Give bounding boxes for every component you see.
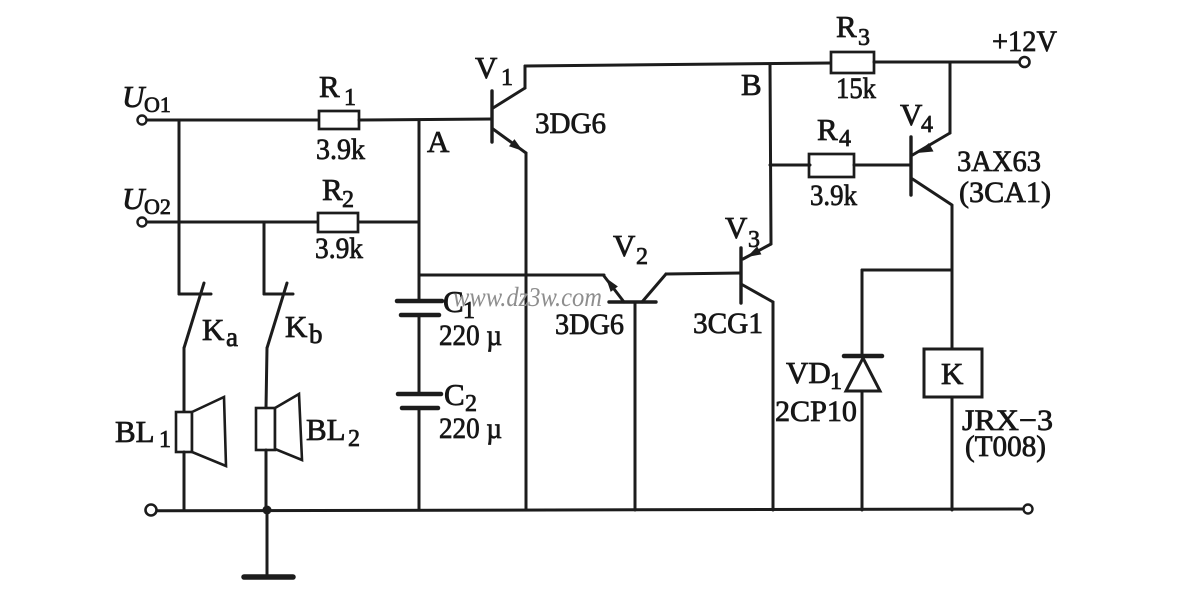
switch Ka	[179, 283, 211, 412]
svg-text:2: 2	[348, 426, 360, 452]
svg-text:VD: VD	[786, 355, 831, 390]
wire R4 to V4 base	[854, 164, 911, 167]
terminal +12V	[1020, 57, 1030, 67]
svg-text:O1: O1	[144, 92, 171, 117]
wire C1 to C2	[418, 315, 421, 394]
input terminal UO1	[138, 116, 147, 125]
speaker BL2	[256, 394, 302, 510]
terminal ground-right	[1024, 505, 1033, 514]
svg-text:R: R	[322, 172, 343, 207]
wire UO1 to R1	[147, 119, 320, 122]
svg-text:V: V	[613, 228, 636, 263]
svg-text:3.9k: 3.9k	[316, 133, 365, 166]
ground rail	[157, 509, 1023, 511]
svg-text:R: R	[836, 9, 857, 44]
svg-text:V: V	[900, 97, 923, 132]
node B vertical wire	[770, 64, 771, 244]
resistor R1	[319, 111, 359, 129]
svg-text:4: 4	[839, 126, 851, 152]
relay K	[924, 349, 982, 397]
resistor R3	[831, 52, 874, 73]
wire R3 to +12V terminal	[874, 61, 1020, 64]
svg-text:3CG1: 3CG1	[693, 307, 763, 340]
svg-text:2: 2	[636, 244, 648, 270]
capacitor C2	[398, 394, 441, 510]
svg-text:3DG6: 3DG6	[555, 308, 624, 341]
svg-text:2CP10: 2CP10	[775, 395, 857, 428]
svg-text:1: 1	[830, 369, 842, 395]
transistor V1	[492, 66, 526, 153]
svg-text:BL: BL	[115, 414, 155, 449]
svg-text:+12V: +12V	[992, 25, 1057, 58]
wire UO1 down to switch Ka	[178, 120, 181, 294]
svg-text:15k: 15k	[836, 72, 876, 105]
svg-text:4: 4	[921, 112, 933, 138]
svg-text:B: B	[741, 67, 762, 102]
junction dot	[263, 506, 272, 515]
top supply rail	[525, 63, 831, 66]
wire R2 to node A	[359, 221, 419, 224]
wire V2 base down to ground rail	[634, 302, 637, 510]
svg-text:3AX63: 3AX63	[957, 145, 1041, 178]
svg-text:3: 3	[858, 25, 870, 51]
node A vertical wire	[418, 120, 421, 275]
svg-text:V: V	[725, 210, 748, 245]
input terminal UO2	[138, 218, 147, 227]
speaker BL1	[176, 397, 226, 510]
svg-text:R: R	[319, 69, 340, 104]
wire relay K down to ground rail	[951, 397, 954, 510]
diode VD1	[844, 270, 882, 510]
svg-text:K: K	[941, 356, 964, 391]
svg-text:www.dz3w.com: www.dz3w.com	[453, 282, 602, 312]
svg-text:(T008): (T008)	[965, 430, 1046, 463]
svg-text:1: 1	[159, 427, 171, 453]
transistor V2	[604, 274, 666, 302]
svg-text:BL: BL	[306, 412, 346, 447]
svg-text:K: K	[285, 309, 308, 344]
svg-text:1: 1	[501, 65, 513, 91]
svg-text:C: C	[444, 377, 465, 412]
svg-text:R: R	[817, 112, 838, 147]
svg-text:3.9k: 3.9k	[810, 179, 857, 212]
resistor R4	[809, 154, 854, 177]
wire VD1 branch	[862, 269, 951, 272]
terminal ground-left	[146, 505, 157, 516]
wire node A to V2 emitter	[419, 274, 604, 277]
wire UO2 down to switch Kb	[263, 222, 266, 294]
capacitor C1	[397, 275, 442, 315]
svg-text:(3CA1): (3CA1)	[959, 176, 1051, 209]
wire V3 collector down to ground rail	[772, 302, 775, 510]
svg-text:A: A	[427, 124, 450, 159]
wire V4 collector down to relay K	[951, 206, 954, 349]
svg-text:1: 1	[344, 85, 356, 111]
ground	[244, 510, 293, 577]
svg-text:3.9k: 3.9k	[315, 232, 363, 265]
svg-text:220 µ: 220 µ	[439, 319, 502, 352]
wire V1 emitter down to ground rail	[525, 153, 528, 510]
svg-text:V: V	[475, 50, 498, 85]
svg-text:3: 3	[748, 227, 760, 253]
svg-text:O2: O2	[144, 194, 171, 219]
svg-text:3DG6: 3DG6	[535, 107, 606, 140]
resistor R2	[318, 213, 358, 232]
wire B to R4	[770, 164, 810, 167]
transistor V3	[741, 244, 773, 303]
wire R1 to node A and V1 base	[359, 119, 492, 120]
transistor V4	[911, 63, 952, 205]
svg-text:220 µ: 220 µ	[439, 412, 502, 445]
svg-text:b: b	[309, 319, 323, 349]
svg-text:K: K	[202, 312, 225, 347]
switch Kb	[264, 283, 293, 408]
svg-text:2: 2	[342, 187, 354, 213]
svg-text:a: a	[226, 322, 238, 352]
wire V3 base to V2 collector	[666, 273, 741, 274]
wire UO2 to R2	[147, 221, 320, 224]
